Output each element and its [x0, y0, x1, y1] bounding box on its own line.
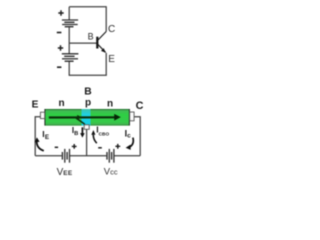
wire right upper (collector lead): [105, 6, 107, 31]
right current loop arrow: [129, 138, 133, 148]
bottom wire middle: [70, 155, 107, 157]
wire bottom: [69, 74, 107, 76]
electron flow arrowhead: [114, 114, 121, 121]
bar right edge: [128, 109, 130, 126]
svg-text:p: p: [85, 98, 91, 109]
wire left segments: [68, 7, 70, 20]
svg-text:Vcc: Vcc: [104, 167, 118, 178]
base wire: [86, 129, 88, 156]
wire right lower (emitter lead): [105, 53, 107, 75]
svg-text:B: B: [88, 31, 94, 41]
bottom wire left: [35, 155, 62, 157]
Vcc - label: [98, 147, 102, 149]
IB down arrow: [81, 127, 83, 133]
base p region (cyan strip): [82, 109, 91, 126]
svg-text:E: E: [108, 54, 115, 65]
battery B1 + label: [58, 10, 63, 15]
svg-text:E: E: [32, 99, 39, 110]
Vcc + label: [115, 144, 120, 149]
VEE - label: [55, 146, 58, 148]
battery B2 - label: [57, 66, 61, 68]
transistor Q1 emitter line: [98, 44, 106, 52]
ICBO arrow: [93, 135, 97, 143]
battery VEE plates: [62, 149, 69, 163]
svg-text:IB: IB: [72, 126, 78, 137]
svg-text:Ic: Ic: [125, 128, 132, 139]
VEE + label: [72, 144, 77, 149]
bar left edge: [44, 109, 46, 126]
battery B2 + label: [58, 45, 63, 50]
base branch arrow: [76, 118, 85, 124]
wire middle (base): [69, 42, 97, 44]
battery B2: [62, 54, 79, 61]
battery B1: [62, 20, 78, 27]
base tab: [84, 125, 89, 130]
transistor Q1 collector line: [98, 32, 106, 41]
electron flow arrow (shaft): [49, 116, 115, 118]
svg-text:B: B: [84, 86, 91, 97]
svg-text:C: C: [136, 100, 144, 112]
emitter wire: [35, 117, 40, 156]
svg-text:C: C: [108, 24, 115, 35]
battery B1 - label: [57, 32, 62, 34]
svg-text:VEE: VEE: [57, 167, 73, 178]
wire top: [69, 6, 106, 8]
emitter n region (green bar): [45, 109, 130, 126]
transistor Q1 base bar: [96, 37, 98, 49]
svg-text:ICBO: ICBO: [96, 125, 109, 137]
bottom wire right: [114, 155, 140, 157]
battery Vcc plates: [107, 149, 114, 163]
svg-text:n: n: [59, 98, 65, 109]
svg-text:IE: IE: [42, 129, 49, 141]
collector tab: [130, 112, 134, 121]
collector wire: [134, 117, 140, 156]
left current loop arrow: [37, 141, 44, 151]
svg-text:n: n: [107, 98, 113, 109]
transistor Q1 emitter arrowhead: [101, 48, 106, 53]
emitter tab: [40, 112, 44, 118]
